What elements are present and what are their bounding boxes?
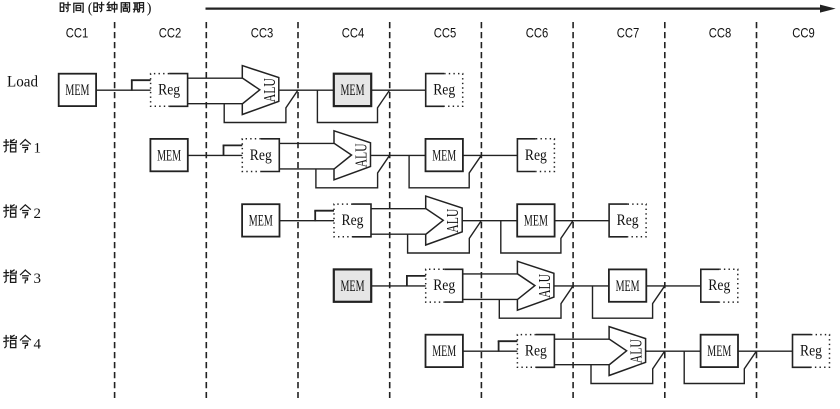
time axis arrow: [206, 7, 823, 9]
MEM data box row2: [426, 139, 463, 171]
svg-text:MEM: MEM: [341, 82, 365, 99]
svg-text:CC3: CC3: [251, 26, 274, 41]
svg-text:3: 3: [33, 271, 41, 287]
svg-text:MEM: MEM: [65, 82, 89, 99]
Reg read box row2: [261, 139, 280, 172]
svg-text:MEM: MEM: [249, 213, 273, 230]
wire row5 lower bus Reg-to-ALU: [553, 364, 609, 366]
column boundary dashed line 7: [664, 22, 666, 398]
wire row3 lower bus Reg-to-ALU: [370, 233, 426, 235]
wire row3 MEM output: [554, 220, 611, 222]
column boundary dashed line 4: [389, 22, 391, 398]
wire row4 lower bus Reg-to-ALU: [462, 298, 518, 300]
row label instruction 4 (指令4): [4, 335, 16, 347]
svg-text:ALU: ALU: [535, 274, 554, 298]
svg-text:MEM: MEM: [157, 147, 181, 164]
wire row5 upper bus Reg-to-ALU: [553, 338, 609, 340]
MEM fetch box row2: [150, 139, 187, 171]
wire row1 ALU output: [279, 89, 335, 91]
latch boundary under MEM row3: [501, 221, 573, 254]
latch boundary under MEM row2: [409, 155, 481, 188]
MEM fetch box row3: [242, 204, 279, 236]
svg-text:CC7: CC7: [617, 26, 640, 41]
wire row4 jog tee vertical: [406, 276, 408, 287]
svg-text:CC5: CC5: [434, 26, 457, 41]
wire row5 ALU output: [646, 350, 702, 352]
MEM fetch box row4: [334, 269, 371, 301]
row label instruction 2 (指令2): [4, 205, 16, 217]
MEM data box row1: [334, 74, 371, 106]
wire row5 MEM output: [737, 350, 794, 352]
svg-text:MEM: MEM: [707, 343, 731, 360]
svg-text:CC4: CC4: [342, 26, 365, 41]
MEM fetch box row1: [59, 74, 96, 106]
wire row5 jog tee vertical: [498, 341, 500, 352]
svg-text:(: (: [88, 1, 93, 17]
ALU row4: [517, 261, 554, 310]
wire row1 jog upper: [131, 79, 152, 81]
svg-text:Reg: Reg: [708, 277, 730, 294]
svg-text:Reg: Reg: [433, 82, 455, 99]
Reg write box row1: [426, 74, 445, 107]
latch boundary under MEM row1: [317, 90, 389, 123]
svg-text:CC1: CC1: [66, 26, 89, 41]
ALU row2: [334, 131, 371, 180]
wire row1 lower bus Reg-to-ALU: [187, 103, 243, 105]
Reg write box row2: [517, 139, 536, 172]
wire row4 upper bus Reg-to-ALU: [462, 273, 518, 275]
column boundary dashed line 5: [480, 22, 482, 398]
svg-text:CC2: CC2: [159, 26, 182, 41]
MEM data box row3: [517, 204, 554, 236]
svg-text:1: 1: [33, 141, 41, 157]
svg-text:CC9: CC9: [792, 26, 815, 41]
wire row4 IF-to-Reg main: [370, 285, 427, 287]
wire row1 IF-to-Reg main: [95, 89, 152, 91]
Reg write box row3: [609, 204, 628, 237]
latch boundary under ALU row4: [499, 286, 573, 318]
svg-text:Reg: Reg: [525, 147, 547, 164]
svg-text:Load: Load: [7, 74, 38, 91]
column boundary dashed line 1: [114, 22, 116, 398]
svg-text:Reg: Reg: [433, 277, 455, 294]
wire row2 ALU output: [371, 154, 427, 156]
svg-text:ALU: ALU: [627, 339, 646, 363]
svg-text:Reg: Reg: [525, 343, 547, 360]
Reg write box row5: [793, 335, 812, 368]
wire row3 upper bus Reg-to-ALU: [370, 208, 426, 210]
wire row3 jog upper: [314, 210, 335, 212]
ALU row5: [609, 327, 646, 376]
wire row5 IF-to-Reg main: [462, 350, 519, 352]
row label instruction 1 (指令1): [4, 140, 16, 152]
ALU row3: [426, 196, 463, 245]
column boundary dashed line 2: [205, 22, 207, 398]
wire row4 jog upper: [406, 275, 427, 277]
wire row2 upper bus Reg-to-ALU: [278, 142, 334, 144]
MEM data box row5: [701, 335, 738, 367]
Reg write box row4: [701, 269, 720, 302]
wire row2 jog upper: [223, 144, 244, 146]
MEM data box row4: [609, 269, 646, 301]
wire row4 MEM output: [645, 285, 702, 287]
wire row5 jog upper: [498, 340, 519, 342]
latch boundary under ALU row3: [408, 221, 482, 254]
wire row3 IF-to-Reg main: [279, 220, 336, 222]
svg-text:ALU: ALU: [443, 209, 462, 233]
svg-text:Reg: Reg: [800, 343, 822, 360]
column boundary dashed line 3: [297, 22, 299, 398]
latch boundary under MEM row4: [593, 286, 665, 318]
svg-text:CC8: CC8: [709, 26, 732, 41]
svg-text:MEM: MEM: [432, 147, 456, 164]
wire row2 lower bus Reg-to-ALU: [278, 168, 334, 170]
latch boundary under MEM row5: [684, 351, 756, 384]
wire row1 jog tee vertical: [131, 80, 133, 91]
svg-text:MEM: MEM: [616, 278, 640, 295]
svg-text:MEM: MEM: [341, 278, 365, 295]
svg-text:Reg: Reg: [617, 212, 639, 229]
wire row3 jog tee vertical: [314, 211, 316, 222]
Reg read box row4: [444, 269, 463, 302]
svg-text:2: 2: [33, 206, 41, 222]
ALU row1: [242, 66, 278, 115]
wire row1 upper bus Reg-to-ALU: [187, 77, 243, 79]
svg-text:): ): [147, 1, 152, 17]
wire row4 ALU output: [554, 285, 610, 287]
latch boundary under ALU row2: [316, 155, 390, 188]
wire row2 IF-to-Reg main: [187, 154, 244, 156]
title label: time (clock cycles) 时间(时钟周期): [60, 2, 70, 11]
svg-text:Reg: Reg: [158, 82, 180, 99]
svg-text:Reg: Reg: [250, 147, 272, 164]
column boundary dashed line 6: [572, 22, 574, 398]
latch boundary under ALU row5: [591, 351, 665, 384]
svg-text:CC6: CC6: [526, 26, 549, 41]
svg-text:ALU: ALU: [260, 78, 279, 102]
svg-text:Reg: Reg: [342, 212, 364, 229]
Reg read box row5: [536, 335, 555, 368]
row label instruction 3 (指令3): [4, 270, 16, 282]
svg-text:ALU: ALU: [352, 143, 371, 167]
latch boundary under ALU row1: [224, 90, 298, 123]
wire row3 ALU output: [462, 220, 518, 222]
svg-text:4: 4: [33, 336, 41, 352]
wire row1 MEM output: [370, 89, 427, 91]
MEM fetch box row5: [426, 335, 463, 367]
column boundary dashed line 8: [756, 22, 758, 398]
svg-text:MEM: MEM: [524, 213, 548, 230]
Reg read box row1: [169, 74, 188, 107]
svg-text:MEM: MEM: [432, 343, 456, 360]
wire row2 MEM output: [462, 154, 519, 156]
Reg read box row3: [353, 204, 372, 237]
wire row2 jog tee vertical: [223, 145, 225, 156]
